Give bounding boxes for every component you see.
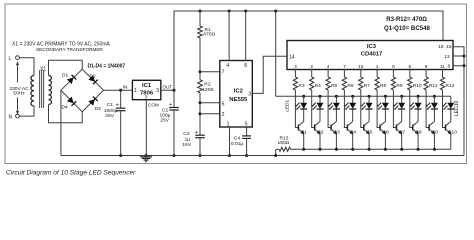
- resistor R5: [326, 70, 338, 91]
- IC3 pin 9 label: [425, 64, 428, 69]
- wire bridge negative to ground rail: [60, 90, 62, 155]
- wire R10 to Q8 base: [410, 90, 413, 128]
- wire R8 to Q6 base: [377, 90, 380, 128]
- wire R2 to C3: [199, 93, 201, 135]
- node pin7 junction: [198, 70, 201, 73]
- capacitor C2: [160, 90, 179, 155]
- wire L to transformer primary: [19, 58, 34, 76]
- svg-text:IN: IN: [123, 85, 128, 90]
- svg-text:X1 = 230V AC PRIMARY TO 9V AC,: X1 = 230V AC PRIMARY TO 9V AC, 250mA: [12, 42, 111, 48]
- svg-text:50Hz: 50Hz: [13, 90, 25, 96]
- node pin2 junction: [198, 112, 201, 115]
- node R13 ground: [274, 154, 277, 157]
- svg-text:10: 10: [358, 64, 364, 69]
- IC3 pin 6 label: [408, 64, 411, 69]
- svg-text:R9: R9: [396, 83, 402, 89]
- wire secondary bottom to bridge AC-: [49, 105, 83, 123]
- resistor R13: [276, 135, 291, 151]
- wire R1 to R2: [199, 38, 201, 80]
- svg-text:Q1-Q10= BC548: Q1-Q10= BC548: [384, 25, 431, 32]
- label Q1-Q10 type: [384, 25, 431, 32]
- wire 555 pin3 to IC3 pin14: [252, 56, 287, 93]
- capacitor C3: [182, 130, 205, 156]
- svg-text:470Ω: 470Ω: [203, 32, 215, 38]
- svg-text:5: 5: [392, 64, 395, 69]
- node Q6 emitter: [384, 148, 387, 151]
- svg-text:3: 3: [294, 64, 297, 69]
- svg-text:COM: COM: [148, 103, 159, 108]
- node LED9 anode: [433, 95, 436, 98]
- wire R6 to Q4 base: [344, 90, 347, 128]
- svg-text:OUT: OUT: [163, 84, 173, 89]
- node C2 bottom: [172, 154, 175, 157]
- resistor R7: [359, 70, 371, 91]
- wire R3 to Q1 base: [295, 90, 298, 128]
- svg-text:Q1: Q1: [301, 130, 308, 136]
- resistor R6: [342, 70, 354, 91]
- svg-text:R5: R5: [331, 83, 337, 89]
- IC3 pin 3 label: [294, 64, 297, 69]
- LED3: [328, 96, 340, 121]
- svg-text:IC1: IC1: [142, 83, 152, 89]
- svg-text:Q4: Q4: [350, 130, 357, 136]
- terminal N: [9, 114, 20, 120]
- wire 555 pin1 to ground: [229, 127, 231, 156]
- IC3 pin 1 label: [376, 64, 379, 69]
- svg-text:Q7: Q7: [399, 130, 406, 136]
- svg-text:4: 4: [327, 64, 330, 69]
- node pin13 junction: [462, 54, 465, 57]
- transformer X1 secondary winding: [49, 76, 52, 105]
- wire LED anode rail: [276, 95, 451, 97]
- LED6: [377, 96, 389, 121]
- node LED6 anode: [384, 95, 387, 98]
- node LED5 anode: [368, 95, 371, 98]
- svg-text:6: 6: [222, 102, 225, 108]
- node ground symbol junction: [144, 154, 147, 157]
- LED7: [393, 96, 405, 121]
- capacitor C1: [104, 90, 126, 155]
- resistor R4: [310, 70, 322, 91]
- wire 555 pin6: [200, 102, 220, 104]
- resistor R12: [440, 70, 454, 91]
- svg-text:11: 11: [440, 64, 445, 69]
- svg-text:R3-R12= 470Ω: R3-R12= 470Ω: [386, 17, 427, 23]
- svg-text:L: L: [9, 56, 12, 62]
- svg-text:D1-D4 = 1N4007: D1-D4 = 1N4007: [88, 63, 126, 69]
- svg-text:Q8: Q8: [415, 130, 422, 136]
- diode D1: [62, 73, 76, 85]
- svg-text:LED1: LED1: [285, 99, 290, 111]
- svg-text:C4: C4: [234, 136, 241, 142]
- transistor Q5: [364, 122, 373, 150]
- transistor Q6: [380, 122, 389, 150]
- svg-text:IC3: IC3: [367, 44, 377, 50]
- label IN: [123, 85, 128, 90]
- node Q7 emitter: [400, 148, 403, 151]
- transformer X1 primary winding: [31, 76, 34, 106]
- svg-text:1: 1: [134, 88, 137, 94]
- svg-text:4: 4: [226, 63, 229, 69]
- terminal L: [9, 56, 20, 62]
- resistor R1: [198, 11, 216, 38]
- resistor R3: [293, 70, 305, 91]
- node Q3 emitter: [335, 148, 338, 151]
- svg-text:N: N: [9, 114, 13, 120]
- ground symbol: [140, 157, 152, 162]
- wire IC1 OUT: [161, 89, 174, 91]
- svg-text:CD4017: CD4017: [361, 51, 383, 57]
- svg-text:+: +: [169, 102, 172, 108]
- node LED7 anode: [400, 95, 403, 98]
- svg-text:13: 13: [444, 54, 450, 60]
- wire R5 to Q3 base: [328, 90, 331, 128]
- regulator IC1 7806: [132, 80, 160, 101]
- diode D2: [88, 74, 97, 85]
- wire 555 pin4 to rail: [228, 11, 230, 61]
- wire 555 pin8 to rail: [245, 11, 247, 61]
- LED10: [442, 96, 454, 121]
- label OUT: [163, 84, 173, 89]
- wire bridge positive to IC1 IN: [104, 89, 133, 91]
- svg-text:15: 15: [446, 44, 452, 50]
- svg-text:16V: 16V: [182, 142, 191, 148]
- svg-text:5: 5: [245, 122, 248, 128]
- node Q5 emitter: [368, 148, 371, 151]
- resistor R10: [408, 70, 422, 91]
- node rail 555 pin4: [228, 9, 231, 12]
- svg-text:100µ: 100µ: [160, 112, 171, 118]
- svg-text:25V: 25V: [160, 118, 169, 124]
- node C4 bottom: [245, 154, 248, 157]
- capacitor C4: [231, 127, 251, 156]
- LED4: [344, 96, 356, 121]
- transistor Q10: [446, 122, 458, 150]
- diode D3: [88, 96, 101, 112]
- wire 555 pin2: [200, 113, 220, 115]
- LED5: [361, 96, 373, 121]
- node pin8 junction: [462, 64, 465, 67]
- svg-text:2: 2: [222, 112, 225, 118]
- wire IC1 COM to ground: [145, 100, 147, 156]
- svg-text:C2: C2: [162, 107, 169, 113]
- label LED10 vertical: [454, 100, 460, 116]
- svg-text:NE555: NE555: [229, 97, 248, 103]
- node LED4 anode: [351, 95, 354, 98]
- svg-text:C1: C1: [107, 102, 114, 108]
- LED9: [426, 96, 438, 121]
- svg-text:1µ: 1µ: [185, 137, 191, 143]
- svg-text:R10: R10: [413, 83, 422, 89]
- node C3 bottom: [198, 154, 201, 157]
- svg-text:7: 7: [222, 69, 225, 75]
- transistor Q7: [396, 122, 405, 150]
- wire secondary top to bridge AC+: [49, 60, 83, 75]
- svg-text:R2: R2: [204, 82, 211, 88]
- node Q8 emitter: [417, 148, 420, 151]
- wire emitter rail: [276, 149, 451, 155]
- timer IC2 NE555: [220, 61, 253, 128]
- svg-text:R8: R8: [380, 83, 386, 89]
- svg-text:25V: 25V: [105, 113, 114, 119]
- node Q9 emitter: [433, 148, 436, 151]
- wire R12 to Q10 base: [443, 90, 446, 128]
- wire N to transformer primary: [19, 106, 34, 116]
- svg-text:D4: D4: [62, 105, 69, 111]
- wire ground rail: [61, 155, 464, 157]
- svg-text:1: 1: [227, 122, 230, 128]
- node pin6 junction: [198, 101, 201, 104]
- svg-text:Q3: Q3: [333, 130, 340, 136]
- node Q4 emitter: [351, 148, 354, 151]
- IC3 pin 10 label: [358, 64, 364, 69]
- svg-text:Circuit Diagram of 10 Stage LE: Circuit Diagram of 10 Stage LED Sequence…: [6, 169, 136, 176]
- svg-text:D1: D1: [62, 73, 69, 79]
- label X1: [40, 67, 46, 73]
- wire +6V top rail: [174, 11, 443, 90]
- node Q1 emitter: [302, 148, 305, 151]
- border frame: [5, 4, 467, 164]
- svg-text:LED10: LED10: [454, 100, 460, 116]
- node rail R1: [198, 9, 201, 12]
- svg-text:D2: D2: [90, 74, 97, 80]
- label COM: [148, 103, 159, 108]
- svg-text:R12: R12: [446, 83, 455, 89]
- svg-text:D3: D3: [95, 106, 102, 112]
- svg-text:R4: R4: [315, 83, 321, 89]
- resistor R11: [424, 70, 438, 91]
- label LED1 vertical: [285, 99, 290, 111]
- LED8: [410, 96, 422, 121]
- svg-text:8: 8: [448, 63, 451, 69]
- IC3 pin 4 label: [327, 64, 330, 69]
- node LED2 anode: [318, 95, 321, 98]
- resistor R8: [375, 70, 387, 91]
- svg-text:SECONDARY TRANSFORMER: SECONDARY TRANSFORMER: [36, 47, 103, 53]
- svg-text:Q10: Q10: [448, 130, 457, 136]
- node rail LED supply: [274, 9, 277, 12]
- transistor Q3: [331, 122, 340, 150]
- svg-text:6: 6: [408, 64, 411, 69]
- LED2: [312, 96, 324, 121]
- svg-text:2: 2: [310, 64, 313, 69]
- svg-text:0.01µ: 0.01µ: [231, 141, 244, 147]
- svg-text:Q2: Q2: [317, 130, 324, 136]
- svg-text:150Ω: 150Ω: [278, 140, 290, 146]
- svg-text:Q5: Q5: [366, 130, 373, 136]
- svg-text:Q9: Q9: [431, 130, 438, 136]
- svg-text:Q6: Q6: [382, 130, 389, 136]
- svg-text:R3: R3: [298, 83, 304, 89]
- svg-text:9: 9: [425, 64, 428, 69]
- svg-text:16: 16: [438, 44, 444, 50]
- wire R4 to Q2 base: [312, 90, 315, 128]
- IC3 pin 7 label: [343, 64, 346, 69]
- IC3 pin 5 label: [392, 64, 395, 69]
- wire R7 to Q5 base: [361, 90, 364, 128]
- transistor Q4: [347, 122, 356, 150]
- svg-text:R11: R11: [429, 83, 438, 89]
- svg-text:R6: R6: [347, 83, 353, 89]
- node LED1 anode: [302, 95, 305, 98]
- svg-text:120K: 120K: [202, 87, 214, 93]
- wire IC3 pins 15 13 8 to ground: [453, 47, 464, 156]
- svg-text:3: 3: [156, 88, 159, 94]
- IC3 pin 2 label: [310, 64, 313, 69]
- mains voltage arrow: [16, 61, 19, 114]
- wire 555 pin7: [200, 71, 220, 73]
- label D1-D4 = 1N4007: [88, 63, 126, 69]
- svg-text:C3: C3: [183, 131, 190, 137]
- node LED8 anode: [417, 95, 420, 98]
- svg-text:1: 1: [376, 64, 379, 69]
- IC3 pin 11 label: [440, 64, 445, 69]
- label 230V AC 50Hz: [9, 86, 29, 97]
- node OUT junction: [172, 89, 175, 92]
- svg-text:7: 7: [343, 64, 346, 69]
- transistor Q9: [429, 122, 438, 150]
- label R3-R12 value: [386, 17, 427, 23]
- caption: [6, 169, 136, 176]
- note transformer spec: [12, 42, 111, 53]
- bridge rectifier diamond wires: [61, 69, 104, 112]
- wire LED supply drop: [275, 11, 277, 96]
- resistor R2: [198, 80, 215, 93]
- node rail 555 pin8: [244, 9, 247, 12]
- counter IC3 CD4017: [287, 41, 453, 70]
- svg-text:+: +: [195, 130, 198, 136]
- LED1: [295, 96, 307, 121]
- node C1 bottom: [119, 154, 122, 157]
- svg-text:R7: R7: [364, 83, 370, 89]
- resistor R9: [391, 70, 403, 91]
- transistor Q2: [315, 122, 324, 150]
- svg-text:8: 8: [244, 63, 247, 69]
- node pin1 ground: [228, 154, 231, 157]
- svg-text:X1: X1: [40, 67, 46, 73]
- svg-text:14: 14: [289, 55, 295, 61]
- wire R9 to Q7 base: [393, 90, 396, 128]
- wire R11 to Q9 base: [426, 90, 429, 128]
- node C1 top: [119, 89, 122, 92]
- svg-text:+: +: [116, 103, 119, 109]
- node Q2 emitter: [318, 148, 321, 151]
- svg-text:IC2: IC2: [234, 89, 244, 95]
- diode D4: [62, 97, 77, 111]
- svg-text:3: 3: [248, 91, 251, 97]
- transformer X1 core: [40, 70, 44, 108]
- node LED3 anode: [335, 95, 338, 98]
- transistor Q1: [298, 122, 307, 150]
- transistor Q8: [413, 122, 422, 150]
